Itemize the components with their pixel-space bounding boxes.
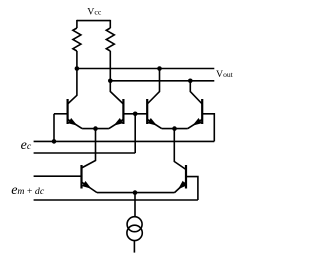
transistor Q1	[66, 99, 68, 124]
junction right pair emitters	[172, 126, 177, 131]
resistor R1	[76, 20, 78, 28]
wire lower emitter bus	[97, 192, 175, 194]
wire Q1 base drop	[53, 114, 55, 142]
transistor Q2	[122, 99, 124, 124]
node A junction	[75, 66, 80, 71]
wire ec line 2	[34, 152, 136, 154]
wire current source bottom stub	[133, 241, 135, 253]
junction lower emitters	[133, 190, 138, 195]
current source I1	[127, 217, 142, 232]
wire output line A	[77, 68, 214, 70]
transistor Q6	[185, 165, 187, 189]
svg-text:em + dc: em + dc	[11, 183, 45, 198]
resistor R2	[109, 20, 111, 28]
svg-text:Vout: Vout	[216, 69, 234, 80]
Vcc power rail	[77, 20, 110, 22]
node B junction	[108, 79, 113, 84]
junction Q3 collector on line A	[157, 66, 162, 71]
wire em+dc line	[34, 199, 198, 201]
wire output line B	[110, 80, 214, 82]
wire inner bases drop to ec line 2	[134, 114, 136, 153]
wire left pair emitter bus	[82, 128, 109, 130]
junction left pair emitters	[93, 126, 98, 131]
transistor Q5	[80, 165, 82, 189]
wire left tail	[82, 129, 96, 168]
svg-text:ec: ec	[21, 138, 32, 153]
wire Q2-Q3 base link	[123, 113, 147, 115]
junction inner bases	[133, 112, 138, 117]
wire to current source	[134, 193, 136, 217]
transistor Q3	[146, 99, 148, 124]
svg-text:Vcc: Vcc	[87, 7, 102, 18]
wire right pair emitter bus	[162, 128, 188, 130]
wire ec line 1	[34, 140, 215, 142]
junction Q4 collector on line B	[188, 79, 193, 84]
wire right tail	[174, 129, 186, 170]
transistor Q4	[201, 99, 203, 124]
junction Q1 base on ec line	[52, 139, 57, 144]
